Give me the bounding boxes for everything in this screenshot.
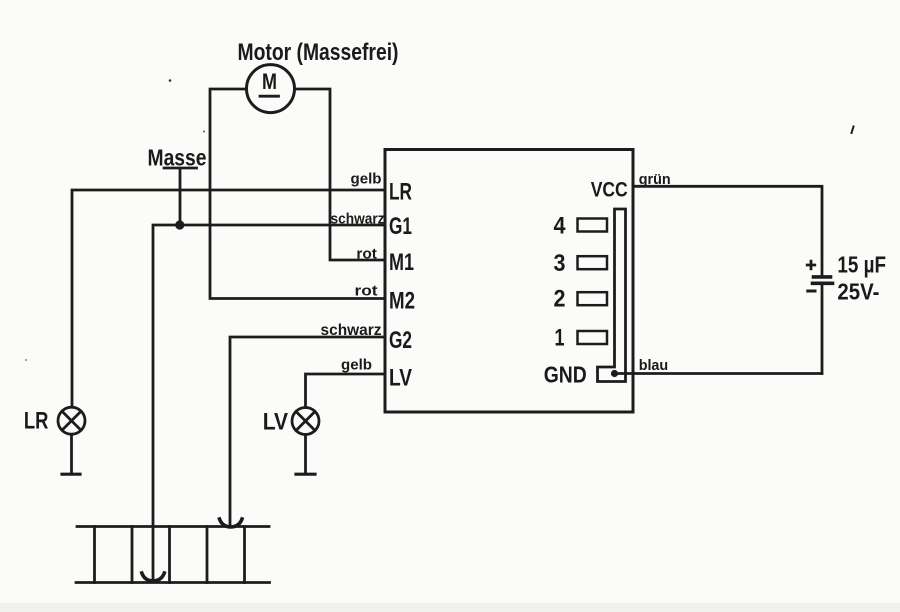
svg-text:rot: rot xyxy=(355,283,378,300)
svg-text:schwarz: schwarz xyxy=(331,211,385,228)
svg-text:GND: GND xyxy=(544,362,587,388)
svg-text:Masse: Masse xyxy=(148,144,207,170)
svg-text:2: 2 xyxy=(554,286,566,313)
svg-text:blau: blau xyxy=(639,357,669,374)
svg-text:LV: LV xyxy=(389,365,412,392)
svg-text:LV: LV xyxy=(263,409,288,436)
svg-text:M: M xyxy=(262,69,277,94)
svg-text:schwarz: schwarz xyxy=(321,322,382,339)
svg-text:LR: LR xyxy=(389,179,412,206)
svg-text:3: 3 xyxy=(554,250,566,277)
svg-text:LR: LR xyxy=(24,408,49,435)
svg-text:gelb: gelb xyxy=(351,171,382,188)
svg-text:VCC: VCC xyxy=(591,177,628,201)
svg-text:1: 1 xyxy=(555,325,565,352)
svg-text:15 µF: 15 µF xyxy=(837,251,886,277)
svg-text:4: 4 xyxy=(554,213,567,240)
svg-text:25V-: 25V- xyxy=(837,279,879,305)
svg-text:Motor (Massefrei): Motor (Massefrei) xyxy=(238,39,399,66)
svg-text:gelb: gelb xyxy=(341,357,372,374)
svg-text:G1: G1 xyxy=(389,213,412,240)
svg-text:M1: M1 xyxy=(389,249,414,276)
svg-text:M2: M2 xyxy=(389,288,415,315)
svg-text:rot: rot xyxy=(356,246,377,263)
svg-text:G2: G2 xyxy=(389,327,412,354)
svg-text:grün: grün xyxy=(639,171,671,188)
